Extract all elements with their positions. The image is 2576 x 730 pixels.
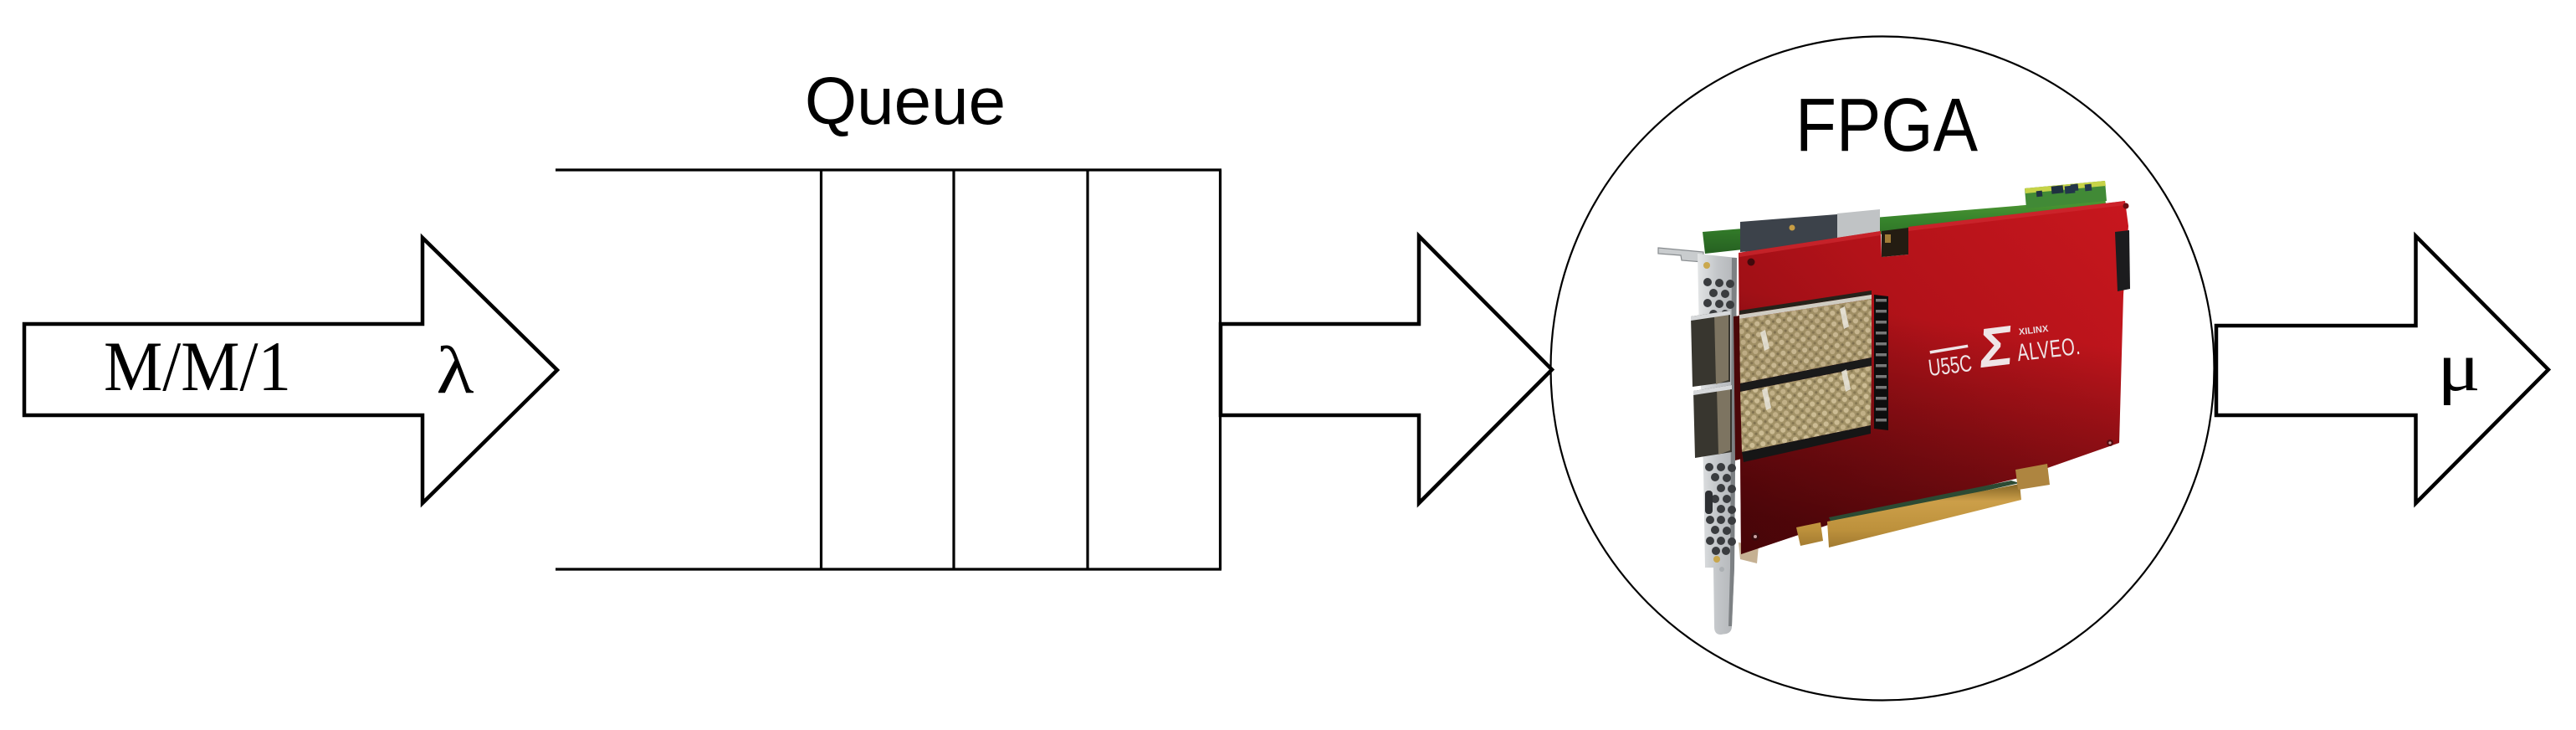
svg-text:U55C: U55C bbox=[1927, 351, 1974, 382]
bracket vent holes lower cluster bbox=[1705, 463, 1736, 555]
green PCB top strip bbox=[1703, 198, 2107, 254]
svg-text:FPGA: FPGA bbox=[1795, 84, 1978, 167]
queue divider 1 bbox=[820, 170, 822, 569]
cage top dark line bbox=[1739, 290, 1872, 315]
svg-text:μ: μ bbox=[2437, 327, 2481, 406]
bracket right dark edge bbox=[1728, 258, 1737, 626]
svg-text:λ: λ bbox=[436, 333, 474, 408]
bracket mini slot bbox=[1705, 491, 1713, 514]
gold PCIe edge long segment bbox=[1827, 484, 2021, 547]
bracket top tab bbox=[1658, 248, 1703, 262]
cage divider bar bbox=[1740, 357, 1872, 392]
green PCB right block bbox=[2025, 181, 2107, 208]
circle FPGA bubble bbox=[1551, 37, 2215, 701]
heatsink fins strip bbox=[1874, 295, 1888, 430]
green strip above gold connector bbox=[1829, 481, 2020, 525]
gold tab under red right bbox=[2015, 464, 2050, 490]
arrow A2 (queue to FPGA) bbox=[1221, 236, 1552, 503]
silver segment of top strip bbox=[1837, 209, 1880, 244]
cage bottom bar bbox=[1742, 425, 1871, 462]
queue top line bbox=[556, 168, 1221, 171]
bracket screw top bbox=[1703, 262, 1710, 269]
cage shadow at bracket bbox=[1734, 316, 1742, 460]
queue divider 2 bbox=[952, 170, 955, 569]
queue right wall bbox=[1219, 170, 1221, 569]
QSFP port opening 2 (bracket) bbox=[1693, 385, 1732, 458]
red shroud body bbox=[1739, 201, 2128, 554]
bracket tail screws bbox=[1713, 556, 1720, 563]
queue bottom line bbox=[556, 568, 1221, 570]
svg-text:M/M/1: M/M/1 bbox=[104, 326, 291, 405]
PCB components dark bbox=[2051, 185, 2064, 193]
label U55C with overline bbox=[1926, 346, 1973, 382]
right edge black block bbox=[2115, 230, 2130, 291]
bracket vent holes upper cluster bbox=[1703, 278, 1734, 318]
QSFP port opening 1 (bracket) bbox=[1691, 311, 1730, 387]
cage top silver rim bbox=[1739, 295, 1872, 319]
svg-text:Queue: Queue bbox=[805, 64, 1006, 138]
Xilinx logo bbox=[1974, 313, 2018, 379]
red lower shading bbox=[1739, 201, 2128, 554]
cage shading bbox=[1739, 299, 1872, 383]
bracket main strip bbox=[1698, 254, 1737, 635]
dark heatsink bar on top strip bbox=[1740, 214, 1837, 252]
arrow A3 (output mu) bbox=[2216, 236, 2548, 503]
red top bevel highlight bbox=[1739, 231, 1881, 257]
card bottom-left foot bbox=[1739, 542, 1759, 563]
arrow A1 (input M/M/1 lambda) bbox=[24, 238, 557, 503]
cage latch marks bbox=[1760, 306, 1851, 410]
QSFP cage upper (dotted EMI grid) bbox=[1739, 299, 1872, 383]
screws on red bbox=[1748, 259, 1755, 266]
queue divider 3 bbox=[1086, 170, 1088, 569]
notch cutout in red top bbox=[1882, 228, 1908, 257]
gold PCIe key segment bbox=[1796, 522, 1823, 546]
QSFP cage lower (dotted EMI grid) bbox=[1740, 366, 1872, 452]
